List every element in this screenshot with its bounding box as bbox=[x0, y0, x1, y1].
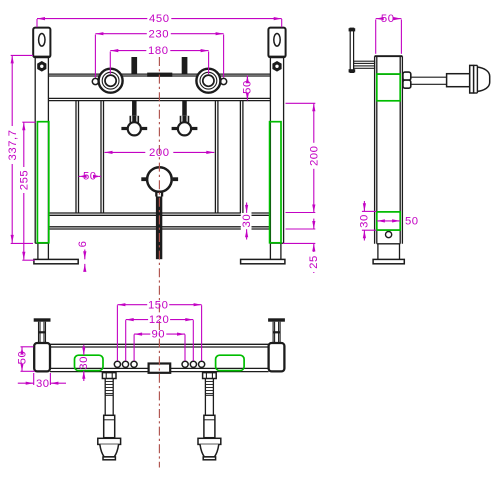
svg-text:25: 25 bbox=[308, 255, 320, 269]
svg-text:200: 200 bbox=[308, 146, 320, 167]
svg-text:200: 200 bbox=[149, 147, 170, 159]
svg-text:50: 50 bbox=[83, 171, 97, 183]
svg-text:50: 50 bbox=[405, 215, 419, 227]
svg-text:50: 50 bbox=[381, 13, 395, 25]
svg-text:255: 255 bbox=[18, 170, 30, 191]
svg-text:230: 230 bbox=[149, 28, 170, 40]
svg-text:30: 30 bbox=[36, 378, 50, 390]
svg-text:30: 30 bbox=[241, 214, 253, 228]
svg-text:50: 50 bbox=[17, 351, 29, 365]
svg-text:150: 150 bbox=[148, 299, 169, 311]
svg-text:337,7: 337,7 bbox=[7, 129, 19, 160]
svg-text:30: 30 bbox=[78, 356, 90, 370]
svg-text:180: 180 bbox=[148, 45, 169, 57]
svg-text:450: 450 bbox=[149, 13, 170, 25]
svg-text:30: 30 bbox=[359, 214, 371, 228]
svg-text:50: 50 bbox=[242, 80, 254, 94]
svg-text:90: 90 bbox=[151, 329, 165, 341]
svg-text:6: 6 bbox=[77, 240, 89, 247]
svg-text:120: 120 bbox=[149, 314, 170, 326]
